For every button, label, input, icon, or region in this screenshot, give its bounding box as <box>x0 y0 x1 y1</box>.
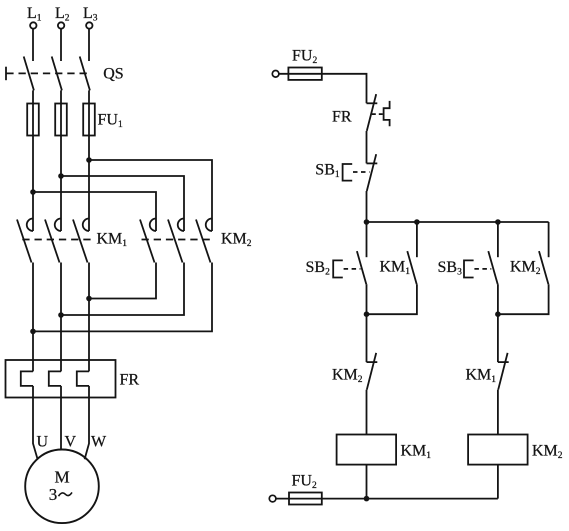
wire KM1 pole1 to FR heater1 <box>32 263 34 372</box>
svg-text:M: M <box>54 468 69 487</box>
junction top bus left <box>364 219 370 225</box>
wire bus to KM1 aux contact <box>416 222 418 257</box>
wire L2 to QS <box>60 29 62 61</box>
junction KM2 pole3 with L1 column <box>30 329 36 335</box>
wire L3 to QS <box>88 29 90 61</box>
fuse FU2 (bottom) <box>289 473 322 505</box>
wire KM2 aux to junction <box>498 284 549 314</box>
svg-text:FR: FR <box>120 372 140 389</box>
start button SB3 (NO) <box>438 251 498 284</box>
wire KM1 pole2 to FR heater2 <box>60 263 62 372</box>
wire KM1 pole3 to FR heater3 <box>88 263 90 372</box>
stop button SB1 (NC) <box>315 154 377 191</box>
wire bottom bus <box>276 498 498 500</box>
svg-text:3: 3 <box>49 485 58 504</box>
wire L2 column to KM2 pole2 <box>61 176 184 231</box>
wire bus to SB3 <box>497 222 499 257</box>
motor M 3-phase <box>25 450 99 524</box>
junction KM2 pole2 with L2 column <box>58 312 64 318</box>
wire FR heater3 to motor W <box>85 386 89 459</box>
thermal overload relay FR (heaters) <box>6 360 140 398</box>
wire top bus <box>367 221 549 223</box>
wire L1 column to KM2 pole1 <box>33 192 156 231</box>
wire FR heater1 to motor U <box>33 386 38 459</box>
wire FR contact to SB1 <box>366 131 368 164</box>
junction on L3 column <box>86 157 92 163</box>
auxiliary contact KM2 (NO, seal-in) <box>510 251 548 284</box>
svg-text:W: W <box>91 434 107 451</box>
thermal overload contact FR (NC) <box>332 94 390 131</box>
svg-text:V: V <box>65 434 77 451</box>
junction KM2 pole1 with L3 column <box>86 296 92 302</box>
wire KM2 pole2 to L2 column <box>61 263 184 316</box>
junction below SB3 <box>495 311 501 317</box>
disconnect switch QS <box>6 57 124 91</box>
interlock contact KM1 (NC) <box>466 353 509 390</box>
wire FR heater2 to motor V <box>60 386 62 450</box>
wire junction to KM1 interlock <box>497 314 499 362</box>
coil KM2 <box>468 435 563 465</box>
wire KM2 pole3 to L1 column <box>33 263 212 332</box>
wire QS to FU1 pole2 <box>60 90 62 231</box>
svg-text:QS: QS <box>103 66 123 83</box>
wire L1 to QS <box>32 29 34 61</box>
control terminal (bottom) <box>269 495 276 502</box>
junction on L2 column <box>58 173 64 179</box>
auxiliary contact KM1 (NO, seal-in) <box>380 251 417 284</box>
contactor main contacts KM1 <box>17 219 127 263</box>
wire L3 column to KM2 pole3 <box>89 160 212 231</box>
svg-text:FR: FR <box>332 109 352 126</box>
wire QS to FU1 pole1 <box>32 90 34 231</box>
wire KM1 coil to bottom bus <box>366 465 368 499</box>
wire bus to SB2 <box>366 222 368 257</box>
junction below SB2 <box>364 311 370 317</box>
junction bottom bus at KM1 coil <box>364 496 370 502</box>
wire KM2 pole1 to L3 column <box>89 263 156 299</box>
contactor main contacts KM2 <box>140 219 252 263</box>
wire QS to FU1 pole3 <box>88 90 90 231</box>
junction on L1 column <box>30 189 36 195</box>
wire KM2 interlock to KM1 coil <box>366 390 368 435</box>
node L1 <box>27 5 42 29</box>
wire SB1 to top bus <box>366 191 368 222</box>
wire KM1 interlock to KM2 coil <box>497 390 499 435</box>
wire junction to KM2 interlock <box>366 314 368 362</box>
wire KM1 aux to junction <box>367 284 417 314</box>
svg-text:U: U <box>37 434 49 451</box>
interlock contact KM2 (NC) <box>332 353 377 390</box>
coil KM1 <box>337 435 432 465</box>
node L2 <box>55 5 70 29</box>
start button SB2 (NO) <box>306 251 367 284</box>
wire bus corner to KM2 aux contact <box>548 222 550 257</box>
junction top bus at KM1 aux <box>414 219 420 225</box>
fuse FU2 (top) <box>288 48 321 80</box>
node L3 <box>83 5 98 29</box>
wire SB3 to junction <box>497 284 499 314</box>
fuse FU1 (three poles) <box>27 104 123 136</box>
wire KM2 coil to bottom bus <box>497 465 499 499</box>
wire SB2 to junction <box>366 284 368 314</box>
wire terminal to FU2 and to FR contact <box>279 74 366 104</box>
control terminal (top) <box>272 71 279 78</box>
junction top bus at SB3 <box>495 219 501 225</box>
